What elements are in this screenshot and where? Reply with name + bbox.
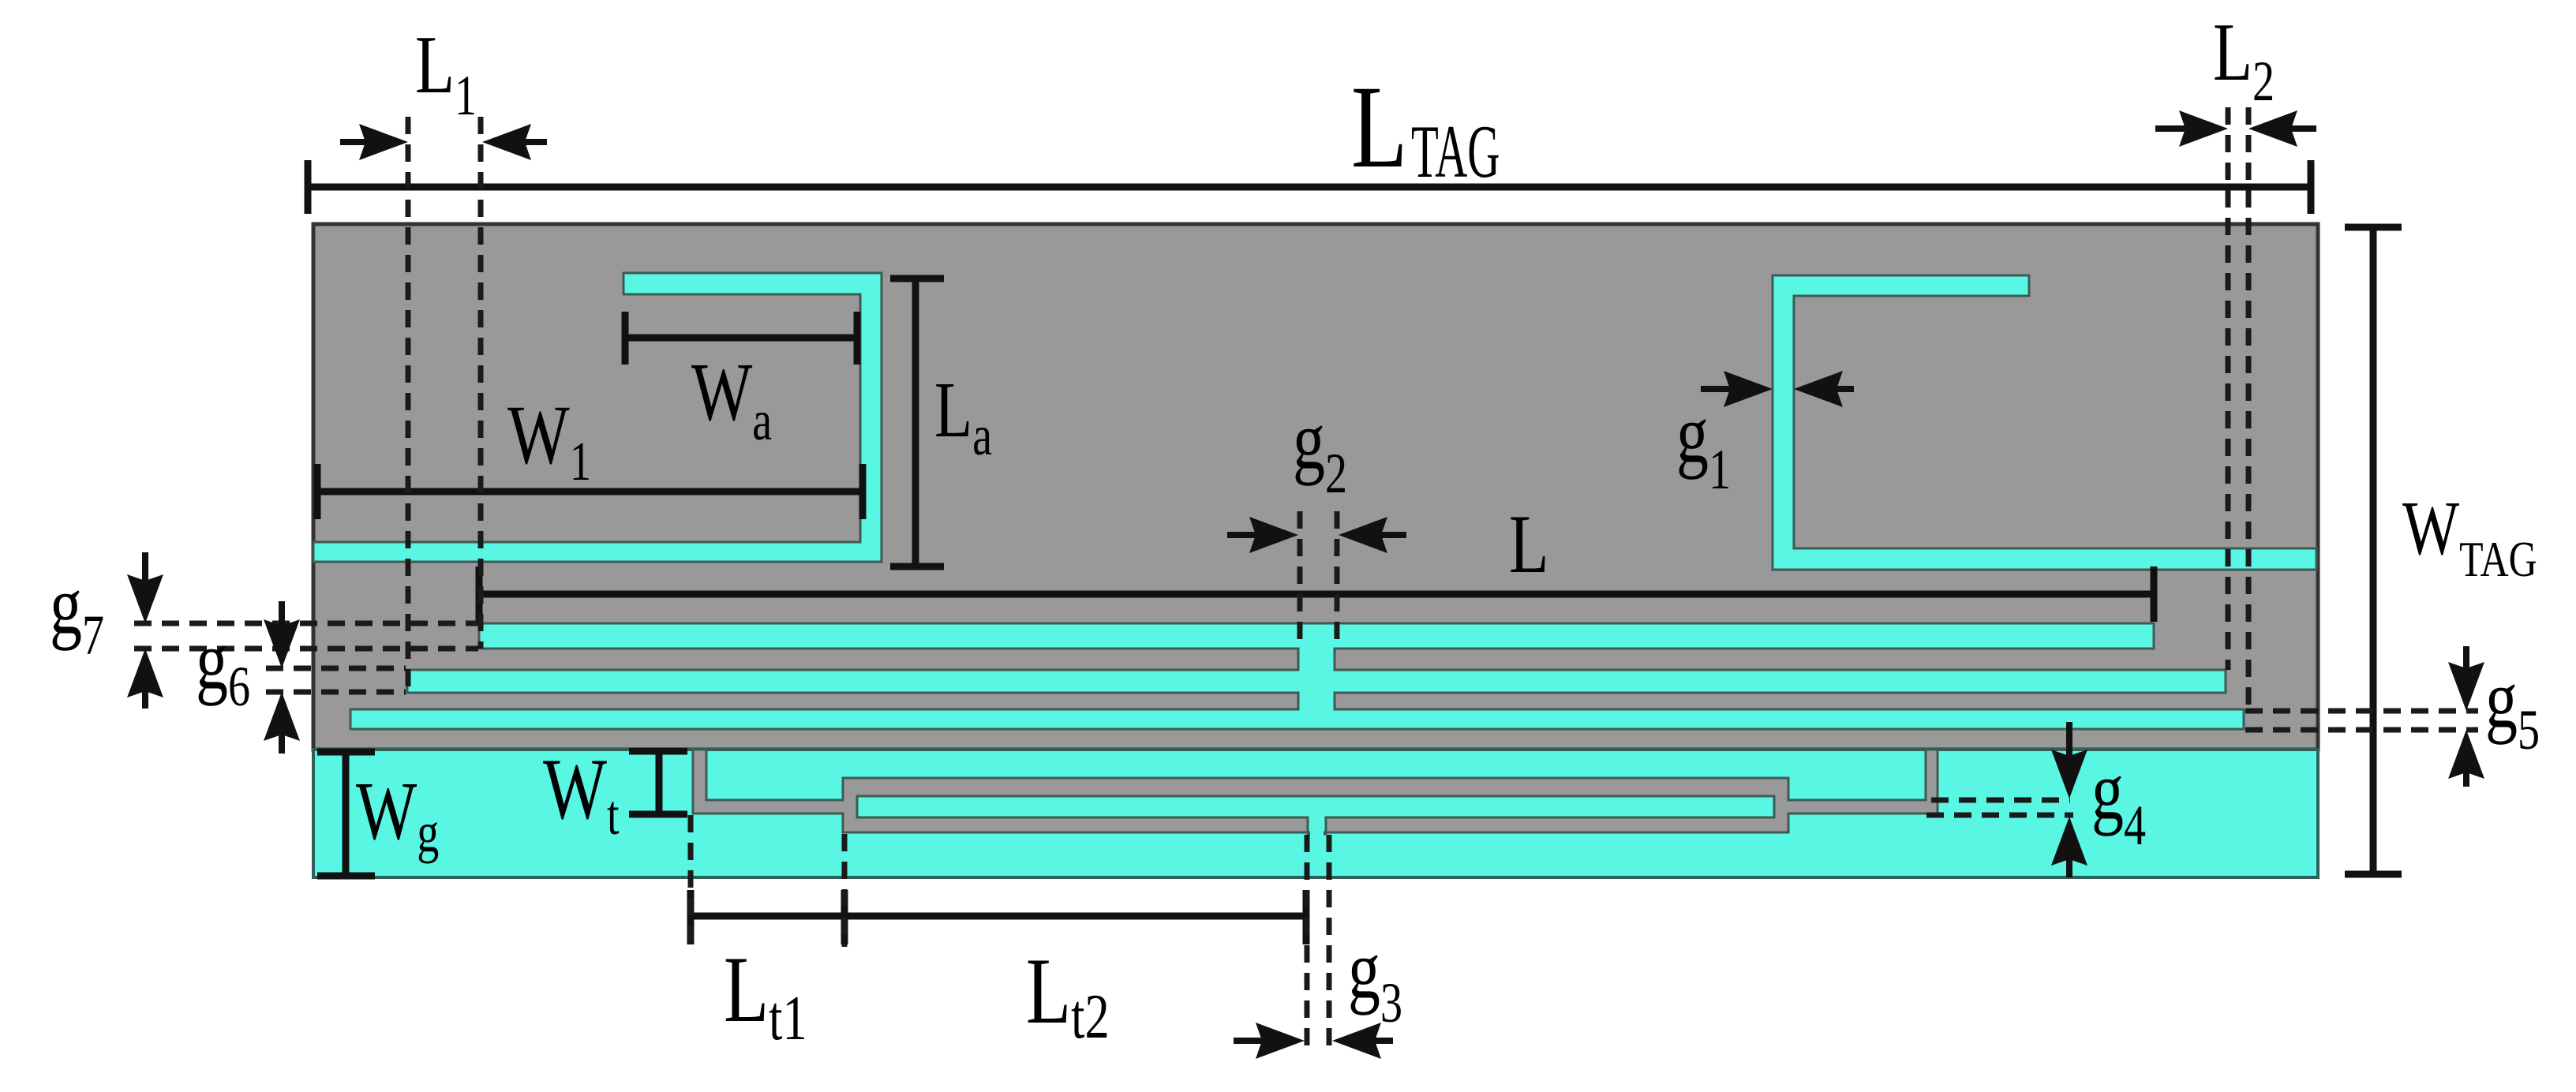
svg-text:g6: g6 (196, 615, 250, 717)
svg-text:g5: g5 (2485, 653, 2540, 761)
svg-text:WTAG: WTAG (2402, 486, 2537, 587)
svg-text:L1: L1 (415, 19, 477, 126)
svg-text:Lt2: Lt2 (1026, 939, 1110, 1052)
svg-text:Lt1: Lt1 (724, 937, 807, 1053)
svg-text:TAG: TAG (1411, 110, 1500, 193)
svg-text:L: L (1351, 62, 1407, 193)
svg-text:g3: g3 (1348, 924, 1402, 1034)
svg-text:L2: L2 (2213, 6, 2275, 112)
svg-text:g7: g7 (50, 559, 104, 666)
svg-text:L: L (1509, 497, 1549, 590)
